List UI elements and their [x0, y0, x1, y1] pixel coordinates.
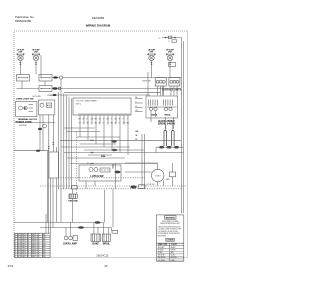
- svg-text:BK: BK: [18, 249, 20, 251]
- svg-text:SURFACE UNITS: SURFACE UNITS: [162, 88, 182, 91]
- svg-text:GROUND: GROUND: [19, 125, 28, 127]
- svg-text:WHITE: WHITE: [32, 247, 37, 249]
- svg-text:DISCONNECT POWER: DISCONNECT POWER: [162, 221, 179, 223]
- svg-text:CIRCUITS SHOWN WITH DOOR: CIRCUITS SHOWN WITH DOOR: [158, 226, 181, 228]
- svg-text:TERMINAL BLOCK: TERMINAL BLOCK: [18, 118, 38, 121]
- svg-text:CLOCK OVEN TIMER: CLOCK OVEN TIMER: [76, 101, 97, 103]
- svg-text:WHITE: WHITE: [32, 252, 37, 254]
- svg-text:BK: BK: [18, 245, 20, 247]
- svg-text:BK: BK: [18, 236, 20, 238]
- svg-text:WHITE: WHITE: [32, 245, 37, 247]
- svg-text:BK: BK: [18, 234, 20, 236]
- svg-text:WHITE: WHITE: [32, 249, 37, 251]
- svg-text:WHITE: WHITE: [32, 254, 37, 256]
- svg-text:FAN: FAN: [166, 178, 170, 181]
- svg-text:WARNING: WARNING: [165, 217, 175, 220]
- svg-text:BROIL: BROIL: [165, 114, 172, 116]
- svg-text:WHITE: WHITE: [32, 256, 37, 258]
- svg-text:WHITE: WHITE: [32, 243, 37, 245]
- svg-text:T: T: [107, 122, 108, 124]
- svg-text:DOOR SW: DOOR SW: [146, 184, 155, 186]
- svg-text:5995434389: 5995434389: [15, 19, 31, 23]
- svg-text:OVEN LIGHT SW: OVEN LIGHT SW: [16, 98, 34, 100]
- svg-text:LIGHT: LIGHT: [47, 95, 52, 97]
- svg-text:P3: P3: [112, 165, 114, 167]
- svg-text:LEGEND: LEGEND: [167, 240, 175, 242]
- svg-text:BAKE: BAKE: [92, 243, 99, 246]
- svg-text:FEF2855: FEF2855: [92, 16, 105, 20]
- svg-text:WIRING DIAGRAM: WIRING DIAGRAM: [86, 24, 111, 28]
- svg-text:BK: BK: [18, 254, 20, 256]
- svg-text:LOCK MECH. IN UNLOCKED: LOCK MECH. IN UNLOCKED: [158, 231, 179, 233]
- svg-text:26024C15: 26024C15: [96, 253, 109, 257]
- svg-text:BAKE: BAKE: [152, 113, 158, 116]
- svg-text:W: W: [136, 135, 138, 137]
- svg-text:BROIL: BROIL: [103, 244, 111, 246]
- svg-text:T: T: [127, 119, 128, 121]
- svg-text:WHITE: WHITE: [32, 241, 37, 243]
- svg-text:BK: BK: [18, 238, 20, 240]
- svg-text:CLOSED, OVEN CONTROLS OFF: CLOSED, OVEN CONTROLS OFF: [158, 229, 182, 231]
- svg-text:0702: 0702: [8, 265, 14, 268]
- svg-text:BK: BK: [18, 252, 20, 254]
- svg-text:BEFORE SERVICING UNIT: BEFORE SERVICING UNIT: [161, 223, 180, 225]
- svg-text:P1: P1: [87, 163, 89, 165]
- svg-text:BK: BK: [18, 256, 20, 258]
- svg-text:MDL: MDL: [101, 156, 106, 158]
- svg-text:GROUND: GROUND: [68, 200, 78, 202]
- svg-text:WHITE: WHITE: [32, 234, 37, 236]
- svg-text:SURF SW: SURF SW: [142, 80, 151, 82]
- svg-text:DOOR SW: DOOR SW: [32, 96, 41, 98]
- svg-text:BK: BK: [18, 241, 20, 243]
- svg-text:WHITE: WHITE: [32, 238, 37, 240]
- svg-text:CONV: CONV: [155, 176, 161, 178]
- svg-text:(ERC): (ERC): [76, 103, 81, 105]
- svg-text:BK: BK: [18, 243, 20, 245]
- svg-text:19: 19: [104, 264, 108, 268]
- svg-text:WHITE: WHITE: [32, 236, 37, 238]
- svg-text:BK: BK: [18, 247, 20, 249]
- svg-text:OVEN LAMP: OVEN LAMP: [63, 243, 77, 246]
